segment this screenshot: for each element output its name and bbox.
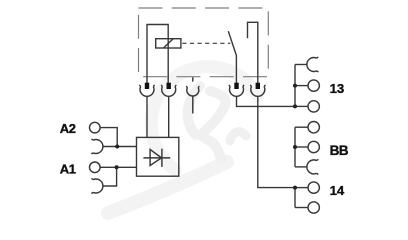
terminal T5 socket [250, 85, 265, 96]
port 13 circle B [295, 105, 308, 107]
terminal T1 socket [139, 85, 154, 96]
port BB circle B [295, 146, 308, 148]
terminal T2 socket [161, 85, 176, 96]
wire: T5 to port 14 [258, 96, 295, 187]
junction A1 [115, 165, 119, 169]
relay coil [156, 39, 181, 48]
wire: T3 free stub below [192, 96, 194, 113]
port group 14: bus [294, 188, 296, 208]
wire: T4 to port 13 [237, 96, 296, 106]
port 13 arc stub [295, 64, 307, 66]
port 14 circle B [295, 207, 308, 209]
wire: A1 into rectifier [100, 166, 136, 168]
socket A1 arc [92, 178, 103, 193]
svg-text:14: 14 [330, 183, 345, 198]
svg-text:A1: A1 [60, 162, 76, 177]
port BB circle A [295, 126, 308, 128]
diode D1 [143, 149, 170, 167]
socket A1 circle [90, 162, 101, 173]
wire: coil hairpin A-side [147, 25, 168, 84]
svg-text:13: 13 [330, 81, 345, 96]
terminal T5 pin [256, 83, 260, 89]
svg-text:BB: BB [330, 143, 349, 158]
relay enclosure (dashed outline) [139, 8, 269, 77]
terminal T4 pin [234, 83, 238, 89]
actuator link (dashed) [182, 42, 230, 44]
terminal T2 pin [167, 83, 171, 89]
wire: A2 into rectifier [103, 146, 137, 148]
port group BB: bus [294, 127, 296, 167]
terminal T3 stub [192, 77, 194, 81]
port group 13: bus [294, 65, 296, 107]
socket A2 arc [92, 139, 103, 154]
port BB socket arc [307, 159, 318, 174]
contact (NO): fixed side and loop [248, 22, 258, 83]
socket A2 circle [90, 122, 101, 133]
terminal T3 socket [186, 86, 199, 96]
wire: A2 circle jumper [100, 128, 117, 147]
port 14 circle A [295, 187, 308, 189]
contact (NO): moving lever [228, 31, 236, 83]
wire: A1 arc jumper [103, 167, 117, 186]
port 13 socket arc [307, 57, 318, 72]
svg-text:A2: A2 [60, 121, 76, 136]
terminal T4 socket [229, 85, 244, 96]
wire: T1 to rectifier [146, 96, 148, 137]
port BB arc stub [295, 166, 307, 168]
port 13 circle A [295, 85, 308, 87]
rectifier box [137, 137, 179, 176]
junction A2 [115, 145, 119, 149]
terminal T1 pin [145, 83, 149, 89]
wire: T2 to rectifier [168, 96, 170, 137]
